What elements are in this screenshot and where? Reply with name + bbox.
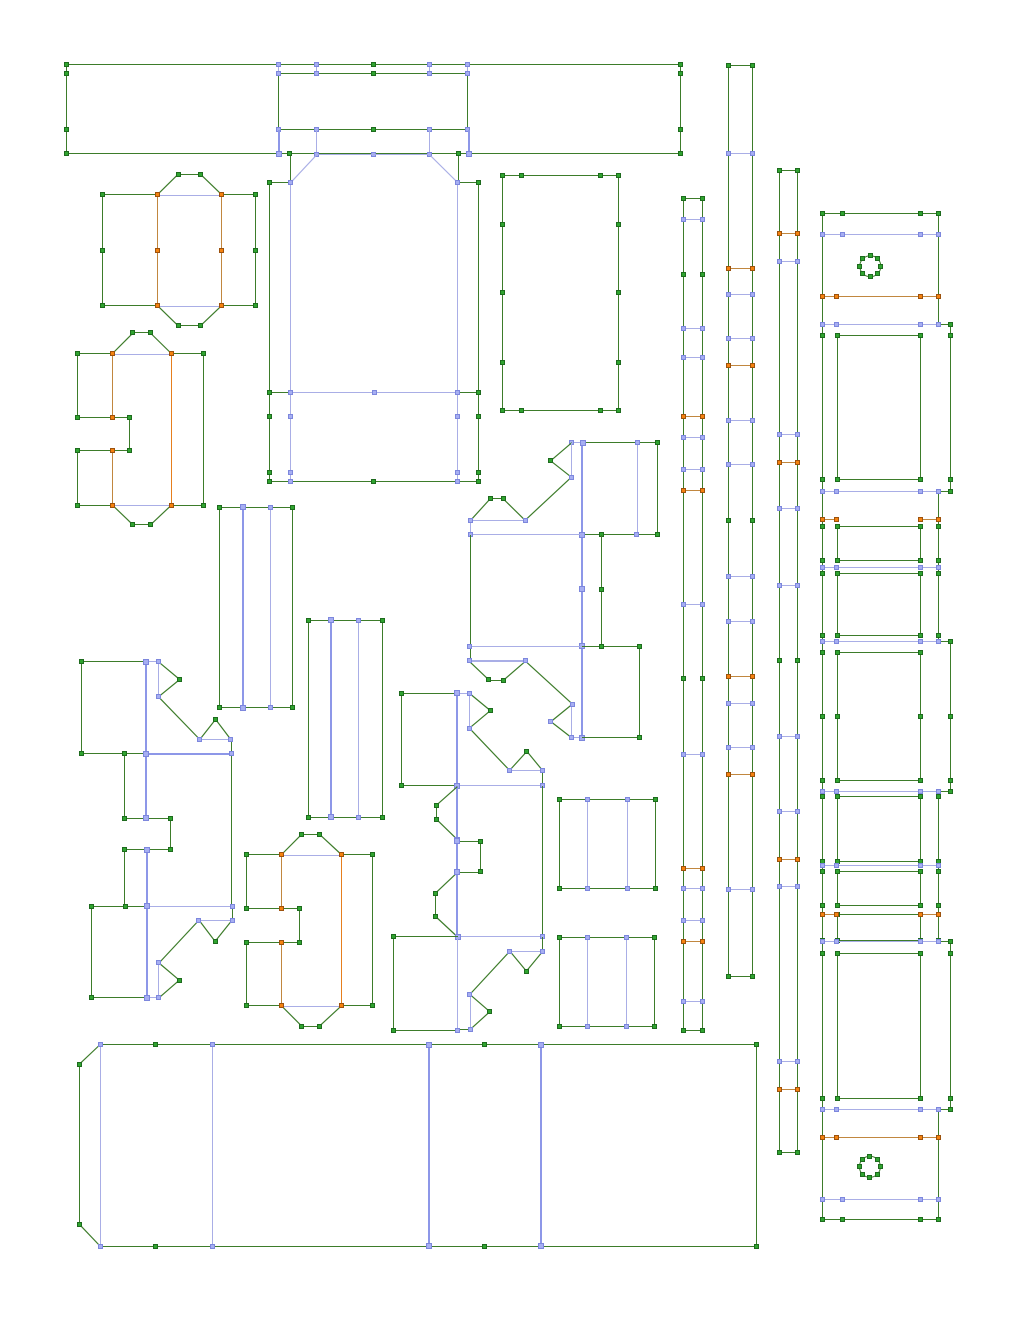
piece K mid column <box>467 535 639 661</box>
piece T fold lines <box>98 1042 544 1249</box>
piece K left arrow and tab <box>468 443 582 537</box>
piece A fold marks <box>276 130 472 157</box>
piece M fold strip <box>433 786 545 940</box>
piece A top panel outline <box>64 62 683 156</box>
piece D inner arch fold <box>288 155 460 485</box>
piece M2 tabbed panel <box>391 934 545 1033</box>
piece D door outline <box>267 151 481 484</box>
piece T bottom panel outline <box>77 1042 759 1249</box>
column S lavender rungs <box>820 232 941 1202</box>
column S orange rungs <box>820 294 941 1140</box>
ladder strip P <box>681 196 705 1033</box>
piece A glue flap <box>276 62 470 132</box>
piece I tabbed panel <box>89 903 235 1001</box>
piece B wrap box <box>100 172 258 328</box>
piece E rectangle <box>500 173 621 413</box>
piece J tabbed panel <box>399 690 545 789</box>
ladder strip R <box>777 168 800 1155</box>
piece N slat rect <box>557 797 658 891</box>
piece K panel upper rect <box>569 440 660 738</box>
piece L notched box <box>244 832 375 1029</box>
piece F slat rect <box>217 504 295 711</box>
piece C notched box <box>75 330 206 527</box>
piece G slat rect <box>306 617 385 820</box>
piece H tabbed panel <box>79 659 234 906</box>
column S outer rails <box>820 211 953 1222</box>
column S bottom hole <box>857 1154 883 1180</box>
piece K bottom rect <box>582 644 642 740</box>
column S inner boxes <box>820 333 953 1101</box>
piece K bottom tab and arrow <box>467 658 585 741</box>
column S top hole <box>857 253 883 279</box>
piece O slat rect <box>557 935 657 1029</box>
ladder strip Q <box>726 63 755 979</box>
